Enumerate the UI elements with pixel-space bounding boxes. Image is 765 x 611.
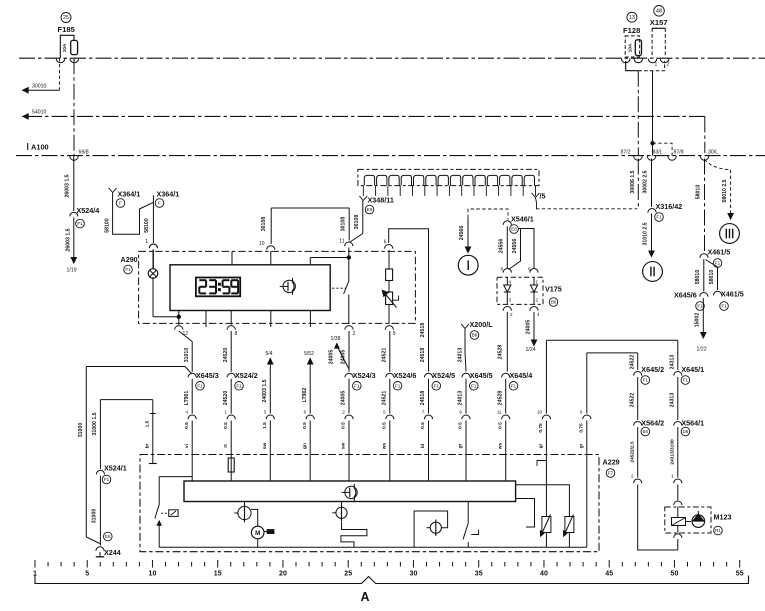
svg-text:X524/4: X524/4	[77, 206, 100, 215]
svg-text:24522: 24522	[629, 393, 635, 408]
svg-text:LT902: LT902	[302, 388, 308, 403]
svg-text:X645/6: X645/6	[674, 291, 697, 300]
svg-text:25: 25	[63, 15, 69, 21]
svg-text:gr: gr	[538, 443, 544, 448]
svg-text:24518: 24518	[420, 348, 426, 363]
svg-text:24528: 24528	[497, 345, 503, 360]
svg-text:F128: F128	[623, 26, 640, 35]
svg-text:F7: F7	[608, 471, 614, 476]
svg-text:69/8: 69/8	[79, 149, 89, 155]
svg-text:0.5: 0.5	[341, 422, 347, 429]
svg-text:bl: bl	[420, 444, 426, 448]
svg-text:24522: 24522	[629, 355, 635, 370]
svg-text:24005: 24005	[341, 391, 347, 406]
svg-text:24521: 24521	[382, 348, 388, 363]
svg-text:F1: F1	[683, 378, 689, 383]
svg-text:24313: 24313	[670, 355, 676, 370]
svg-text:A290: A290	[121, 255, 138, 264]
svg-text:1: 1	[536, 280, 539, 285]
svg-text:1.5: 1.5	[262, 422, 268, 429]
svg-text:D6: D6	[682, 429, 688, 434]
svg-text:10: 10	[149, 571, 157, 578]
svg-text:26003 1.5: 26003 1.5	[65, 174, 71, 197]
svg-text:58010: 58010	[696, 185, 702, 200]
svg-text:30/L: 30/L	[708, 149, 718, 155]
svg-text:6: 6	[384, 240, 387, 246]
svg-text:1/24: 1/24	[526, 347, 536, 353]
svg-text:31000: 31000	[92, 509, 98, 524]
svg-text:gn: gn	[303, 443, 308, 449]
svg-text:0.5: 0.5	[302, 422, 308, 429]
svg-text:1/19: 1/19	[67, 268, 77, 274]
svg-text:54010: 54010	[32, 109, 47, 115]
svg-text:2: 2	[667, 62, 670, 68]
svg-text:24566: 24566	[459, 226, 465, 241]
svg-text:30108: 30108	[354, 215, 360, 230]
svg-text:X524/5: X524/5	[432, 371, 455, 380]
svg-text:24013: 24013	[458, 348, 464, 363]
svg-text:F1: F1	[643, 378, 649, 383]
svg-text:X564/1: X564/1	[681, 419, 704, 428]
svg-text:sw: sw	[263, 443, 268, 450]
svg-text:F1: F1	[77, 221, 83, 226]
svg-text:58100: 58100	[144, 218, 150, 233]
svg-text:11: 11	[339, 239, 344, 245]
svg-text:1: 1	[145, 239, 148, 245]
svg-text:24005: 24005	[329, 350, 335, 365]
svg-text:gr: gr	[458, 443, 464, 448]
svg-text:1: 1	[671, 474, 674, 479]
svg-text:F1: F1	[721, 304, 727, 309]
svg-text:58010: 58010	[695, 270, 701, 285]
svg-text:F1: F1	[471, 383, 477, 388]
svg-text:ws: ws	[383, 442, 388, 450]
svg-text:F1: F1	[197, 383, 203, 388]
svg-text:X645/4: X645/4	[510, 371, 533, 380]
svg-text:31010 2.5: 31010 2.5	[643, 222, 649, 245]
svg-text:24520: 24520	[223, 391, 229, 406]
svg-text:X364/1: X364/1	[118, 190, 141, 199]
svg-text:24313: 24313	[670, 393, 676, 408]
svg-text:24522/2.5: 24522/2.5	[629, 441, 635, 463]
svg-text:2: 2	[510, 312, 513, 317]
svg-text:X524/2: X524/2	[235, 371, 258, 380]
svg-text:45: 45	[605, 571, 613, 578]
svg-text:30: 30	[410, 571, 418, 578]
svg-text:24520: 24520	[223, 348, 229, 363]
svg-text:M: M	[255, 530, 260, 537]
svg-text:1: 1	[655, 62, 658, 68]
svg-text:LT901: LT901	[184, 391, 190, 406]
svg-text:X244: X244	[104, 548, 121, 557]
svg-text:M123: M123	[714, 513, 732, 522]
svg-text:24556: 24556	[499, 239, 505, 254]
svg-text:8: 8	[235, 331, 238, 337]
svg-text:31010: 31010	[184, 348, 190, 363]
svg-text:26003 1.5: 26003 1.5	[66, 228, 72, 251]
svg-text:24556: 24556	[512, 239, 518, 254]
svg-text:5/52: 5/52	[304, 351, 314, 357]
svg-text:X157: X157	[650, 18, 668, 27]
svg-text:1/38: 1/38	[330, 336, 340, 342]
svg-text:X645/1: X645/1	[681, 365, 704, 374]
svg-text:F1: F1	[236, 383, 242, 388]
svg-text:F1: F1	[125, 267, 131, 272]
svg-text:24518: 24518	[420, 391, 426, 406]
svg-text:F185: F185	[58, 25, 76, 34]
svg-text:35: 35	[475, 571, 483, 578]
svg-text:15: 15	[214, 571, 222, 578]
svg-text:A229: A229	[603, 458, 620, 467]
svg-text:/5: /5	[540, 192, 546, 201]
svg-text:4: 4	[537, 312, 540, 317]
svg-text:vi: vi	[184, 444, 190, 448]
svg-text:X546/1: X546/1	[511, 215, 534, 224]
svg-text:X564/2: X564/2	[641, 419, 664, 428]
svg-text:E6: E6	[367, 207, 373, 212]
svg-text:ws: ws	[498, 442, 503, 450]
svg-text:24013: 24013	[458, 391, 464, 406]
svg-text:5/4: 5/4	[265, 351, 272, 357]
svg-text:1/22: 1/22	[697, 347, 707, 353]
svg-text:10: 10	[537, 410, 542, 415]
svg-text:30002 2.5: 30002 2.5	[643, 170, 649, 193]
svg-text:30010: 30010	[32, 83, 47, 89]
svg-text:55: 55	[736, 571, 744, 578]
svg-text:10A: 10A	[62, 43, 68, 52]
svg-text:F1: F1	[354, 383, 360, 388]
svg-text:X645/3: X645/3	[196, 371, 219, 380]
svg-text:30006 1.5: 30006 1.5	[630, 170, 636, 193]
svg-text:0.5: 0.5	[458, 422, 464, 429]
svg-text:br: br	[144, 443, 150, 448]
svg-text:X461/5: X461/5	[721, 290, 744, 299]
svg-text:20: 20	[279, 571, 287, 578]
svg-text:13: 13	[629, 15, 635, 21]
svg-text:A: A	[360, 590, 369, 604]
svg-text:gr: gr	[579, 443, 585, 448]
svg-text:X348/11: X348/11	[368, 196, 394, 205]
svg-text:31000 1.5: 31000 1.5	[92, 412, 98, 435]
svg-text:V175: V175	[545, 285, 562, 294]
svg-text:83/L: 83/L	[653, 149, 663, 155]
svg-text:58010 2.5: 58010 2.5	[722, 179, 728, 202]
svg-text:X645/2: X645/2	[641, 365, 664, 374]
svg-text:87/2: 87/2	[621, 149, 631, 155]
svg-text:F1: F1	[656, 215, 662, 220]
svg-text:24005: 24005	[526, 320, 532, 335]
svg-text:31000: 31000	[78, 423, 84, 438]
svg-text:X524/1: X524/1	[104, 464, 127, 473]
svg-text:X200/L: X200/L	[470, 320, 494, 329]
svg-text:24313/3100: 24313/3100	[670, 439, 676, 465]
svg-text:50: 50	[671, 571, 679, 578]
svg-text:5: 5	[85, 571, 89, 578]
svg-text:0.75: 0.75	[538, 423, 544, 433]
svg-text:X316/42: X316/42	[656, 202, 683, 211]
svg-text:F1: F1	[434, 383, 440, 388]
svg-text:15002: 15002	[695, 313, 701, 328]
svg-text:24518: 24518	[420, 323, 426, 338]
svg-text:X524/6: X524/6	[394, 371, 417, 380]
svg-text:10A: 10A	[628, 43, 634, 52]
svg-text:E6: E6	[105, 534, 111, 539]
svg-text:X364/1: X364/1	[157, 190, 180, 199]
svg-text:2: 2	[353, 331, 356, 337]
svg-text:24528: 24528	[497, 391, 503, 406]
svg-text:24521: 24521	[382, 391, 388, 406]
svg-text:F1: F1	[697, 304, 703, 309]
svg-text:25: 25	[344, 571, 352, 578]
svg-text:8: 8	[500, 267, 503, 272]
svg-text:B6: B6	[551, 300, 557, 305]
svg-text:R1: R1	[715, 528, 721, 533]
svg-text:F1: F1	[395, 383, 401, 388]
svg-text:58100: 58100	[105, 218, 111, 233]
svg-text:4: 4	[509, 280, 512, 285]
svg-text:30108: 30108	[261, 217, 267, 232]
svg-text:F1: F1	[104, 477, 110, 482]
svg-text:X645/5: X645/5	[470, 371, 493, 380]
svg-text:0.5: 0.5	[497, 422, 503, 429]
svg-text:0.5: 0.5	[184, 422, 190, 429]
svg-text:0.75: 0.75	[579, 423, 585, 433]
svg-text:0.5: 0.5	[382, 422, 388, 429]
svg-text:2: 2	[536, 298, 539, 303]
svg-text:0.5: 0.5	[223, 422, 229, 429]
svg-text:40: 40	[540, 571, 548, 578]
svg-text:rt: rt	[223, 444, 229, 448]
svg-text:9: 9	[393, 331, 396, 337]
svg-text:1.5: 1.5	[144, 420, 150, 427]
svg-text:48: 48	[656, 8, 662, 14]
svg-text:24003 1.5: 24003 1.5	[262, 379, 268, 402]
svg-text:2: 2	[631, 474, 634, 479]
svg-text:30108: 30108	[340, 217, 346, 232]
svg-text:10: 10	[259, 241, 265, 247]
svg-text:87/8: 87/8	[674, 149, 684, 155]
svg-text:F1: F1	[511, 383, 517, 388]
svg-text:B6: B6	[472, 333, 478, 338]
svg-text:0.5: 0.5	[420, 422, 426, 429]
svg-text:F1: F1	[715, 261, 721, 266]
svg-text:11: 11	[497, 410, 502, 415]
svg-text:sw: sw	[342, 443, 347, 450]
svg-text:F: F	[119, 201, 122, 206]
svg-text:F: F	[158, 201, 161, 206]
svg-text:3: 3	[509, 298, 512, 303]
svg-text:E6: E6	[642, 429, 648, 434]
svg-text:24005: 24005	[341, 350, 347, 365]
svg-text:X524/3: X524/3	[353, 371, 376, 380]
svg-text:E6: E6	[511, 227, 517, 232]
svg-text:A100: A100	[31, 143, 49, 152]
svg-text:58010: 58010	[709, 270, 715, 285]
svg-text:X461/5: X461/5	[708, 248, 731, 257]
